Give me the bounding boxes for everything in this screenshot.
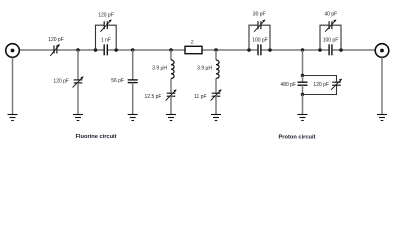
- node junction at L2 branch: [214, 48, 218, 52]
- wire C7 to ground: [215, 96, 217, 115]
- wire combo3 loop: [320, 25, 341, 50]
- capacitor C12 40 pF variable (top of combo3): [325, 20, 336, 32]
- capacitor C7 11 pF variable: [211, 90, 222, 101]
- wire C5 to ground: [132, 83, 134, 115]
- ground G6: [298, 115, 308, 121]
- capacitor C6 12.5 pF variable: [166, 90, 177, 101]
- wire main line segment 2: [57, 49, 104, 51]
- wire main line segment 4: [202, 49, 258, 51]
- node junction combo3 right: [339, 48, 343, 52]
- ground G3: [128, 115, 138, 121]
- svg-text:1 nF: 1 nF: [101, 37, 111, 43]
- svg-text:100 pF: 100 pF: [252, 37, 268, 43]
- svg-text:Z: Z: [191, 40, 194, 45]
- ground G4: [166, 115, 176, 121]
- svg-text:11 pF: 11 pF: [194, 94, 206, 100]
- node junction parallel top: [301, 74, 305, 78]
- capacitor C8 30 pF variable (top of combo2): [254, 20, 265, 32]
- wire P1 to ground: [12, 57, 14, 114]
- port P2 right connector: [375, 44, 389, 58]
- resistor Z transmission line: [185, 46, 202, 53]
- node junction at 480 pF branch: [301, 48, 305, 52]
- svg-text:Proton circuit: Proton circuit: [279, 135, 316, 141]
- capacitor C5 56 pF shunt: [128, 80, 138, 83]
- wire P2 to ground: [381, 57, 383, 114]
- svg-text:12.5 pF: 12.5 pF: [145, 94, 162, 100]
- capacitor C3 120 pF variable (top of combo1): [100, 20, 111, 32]
- svg-text:56 pF: 56 pF: [111, 78, 124, 84]
- wire main line segment 5: [261, 49, 329, 51]
- capacitor C13 100 pF inline: [329, 44, 332, 55]
- wire junction to L2: [215, 50, 217, 60]
- wire C6 to ground: [170, 96, 172, 115]
- svg-text:30 pF: 30 pF: [253, 12, 266, 18]
- svg-text:120 pF: 120 pF: [53, 78, 69, 84]
- inductor L1 3.9 uH: [171, 60, 174, 78]
- wire loop to C11: [303, 76, 337, 95]
- port P1 left connector: [6, 44, 20, 58]
- capacitor C10 480 pF: [298, 82, 308, 85]
- svg-text:480 pF: 480 pF: [280, 82, 296, 88]
- wire parallel bottom to ground: [302, 95, 304, 115]
- wire combo2 loop: [249, 25, 270, 50]
- capacitor C11 120 pF variable: [331, 79, 342, 90]
- node junction parallel bottom: [301, 93, 305, 97]
- node junction at C5: [131, 48, 135, 52]
- wire junction to C5: [132, 50, 134, 80]
- capacitor C4 1 nF inline: [104, 44, 107, 55]
- svg-text:3.9 µH: 3.9 µH: [197, 66, 212, 72]
- svg-text:Fluorine circuit: Fluorine circuit: [75, 134, 116, 140]
- capacitor C2 120 pF shunt variable: [73, 77, 84, 88]
- wire L1 to C6: [170, 78, 172, 93]
- ground G5: [211, 115, 221, 121]
- node junction combo1 left: [94, 48, 98, 52]
- wire L2 to C7: [215, 78, 217, 93]
- inductor L2 3.9 uH: [216, 60, 219, 78]
- node junction at L1 branch: [169, 48, 173, 52]
- wire main line segment 6: [332, 49, 375, 51]
- node junction combo3 left: [318, 48, 322, 52]
- node junction at C2: [76, 48, 80, 52]
- node junction combo2 right: [268, 48, 272, 52]
- wire main line segment 3: [107, 49, 185, 51]
- wire C2 to ground: [77, 83, 79, 115]
- wire junction down to parallel caps: [302, 50, 304, 76]
- wire main line segment 1: [19, 49, 54, 51]
- wire junction to L1: [170, 50, 172, 60]
- wire junction to C2: [77, 50, 79, 80]
- ground G2: [73, 115, 83, 121]
- svg-text:120 pF: 120 pF: [98, 12, 114, 18]
- svg-text:120 pF: 120 pF: [48, 37, 64, 43]
- node junction combo2 left: [247, 48, 251, 52]
- svg-text:100 pF: 100 pF: [323, 37, 339, 43]
- svg-text:120 pF: 120 pF: [313, 82, 329, 88]
- ground G1: [8, 115, 18, 121]
- wire combo1 loop: [96, 25, 117, 50]
- capacitor C1 120 pF series variable: [50, 44, 59, 55]
- node junction combo1 right: [114, 48, 118, 52]
- wire 480 pF top lead: [302, 76, 304, 83]
- svg-text:3.9 µH: 3.9 µH: [152, 66, 167, 72]
- wire 480 pF bottom lead: [302, 85, 304, 94]
- capacitor C9 100 pF inline: [258, 44, 261, 55]
- svg-text:40 pF: 40 pF: [324, 12, 337, 18]
- ground G7: [377, 115, 387, 121]
